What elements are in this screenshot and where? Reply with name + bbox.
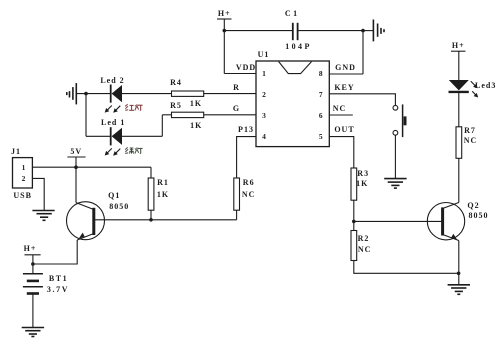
wire Q1 emitter down and left to H+ <box>33 240 77 264</box>
wire R1 top stub <box>150 167 152 178</box>
wire pin 1 VDD stub <box>224 73 256 75</box>
wire 5V rail <box>32 166 151 168</box>
wire H+ to C1 left plate <box>224 30 292 32</box>
power flag H+ Led3 <box>451 51 466 80</box>
pin label KEY <box>334 84 354 92</box>
label J1 <box>11 148 21 156</box>
label C1 <box>285 10 300 18</box>
wire battery to ground <box>32 295 34 328</box>
node junction R1 bottom <box>149 218 153 222</box>
label Q1 <box>108 192 120 200</box>
wire to R5 left <box>162 114 171 116</box>
Led2 emission arrows <box>105 106 121 113</box>
wire J1 pin 2 to ground <box>32 178 44 210</box>
LED Led3 <box>449 80 469 92</box>
wire ground rail down to Led1 <box>85 94 87 137</box>
pin label GND <box>335 64 356 72</box>
wire R7 to Q2 collector <box>458 158 460 202</box>
pin 8 number <box>319 70 323 78</box>
node junction Q2 emitter / R2 <box>457 272 461 276</box>
wire C1 right plate to ground junction <box>298 30 363 32</box>
pin 2 number <box>262 91 266 99</box>
resistor R4 <box>172 91 204 96</box>
pin 7 number <box>319 91 323 99</box>
pin 6 number <box>319 112 323 120</box>
wire ground to Led2 cathode <box>76 93 110 95</box>
pushbutton KEY <box>393 104 407 137</box>
wire R1 bottom stub <box>150 210 152 220</box>
connector J1 body <box>13 158 33 188</box>
pin label OUT <box>334 126 354 134</box>
pin 2 of J1 <box>22 175 26 183</box>
pin label VDD <box>236 64 256 72</box>
pin label NC <box>333 105 347 113</box>
node junction C1 / GND pin <box>361 29 365 33</box>
wire pin 4 P13 stub <box>237 137 256 178</box>
wire button to ground <box>394 135 396 178</box>
node junction 5V <box>74 165 78 169</box>
label Q2 <box>467 202 479 210</box>
pin 3 number <box>262 112 266 120</box>
label Led 2 <box>100 77 124 85</box>
label U1 <box>258 51 270 59</box>
pin 4 number <box>262 133 266 141</box>
wire pin 8 GND stub <box>329 73 363 75</box>
label red lamp (hong deng) <box>125 104 142 110</box>
resistor R6 <box>234 178 240 210</box>
wire junction down to pin 8 <box>362 31 364 74</box>
transistor Q2 <box>427 203 464 241</box>
value NC of R6 <box>242 191 256 199</box>
ground battery <box>22 328 44 338</box>
power flag H+ top-left <box>217 19 232 31</box>
wire R2 bottom to emitter rail <box>354 261 459 274</box>
resistor R3 <box>351 168 357 200</box>
wire Led2 anode to R4 <box>122 93 172 95</box>
wire junction to ground symbol <box>363 30 373 32</box>
value NC of R7 <box>464 137 478 145</box>
wire pin 7 KEY to button <box>329 94 395 106</box>
value 1K of R5 <box>190 122 202 130</box>
wire R3 bottom to junction <box>353 200 355 230</box>
label R4 <box>170 79 182 87</box>
label USB <box>13 192 32 200</box>
pin 5 number <box>319 133 323 141</box>
label BT1 <box>49 275 68 283</box>
label R6 <box>243 179 255 187</box>
label Led3 <box>475 82 496 90</box>
node junction battery H+ <box>31 262 35 266</box>
LED Led1 <box>111 127 122 145</box>
ground J1 <box>32 211 54 222</box>
wire VDD vertical from H+ to pin 1 <box>223 31 225 74</box>
resistor R1 <box>148 178 154 210</box>
ground (rotated, top right) <box>373 20 384 42</box>
label R3 <box>357 170 369 178</box>
power flag H+ battery <box>25 255 41 264</box>
label R1 <box>157 179 169 187</box>
Led3 emission arrows <box>471 81 478 97</box>
label R2 <box>358 235 370 243</box>
wire R6 bottom to base rail <box>236 210 238 220</box>
value 8050 of Q1 <box>109 203 129 211</box>
wire base rail Q1/R1/R6 <box>94 219 237 221</box>
wire R5 to pin 3 G <box>204 114 256 116</box>
label Led 1 <box>101 119 125 127</box>
transistor Q1 <box>67 202 105 240</box>
value 1K of R1 <box>157 191 169 199</box>
value 8050 of Q2 <box>469 212 489 220</box>
label H+ top-left <box>218 10 231 18</box>
value NC of R2 <box>358 246 372 254</box>
capacitor C1 <box>293 23 298 40</box>
value 1K of R3 <box>356 180 368 188</box>
value 104P <box>285 43 312 51</box>
pin 1 of J1 <box>22 164 26 172</box>
label R7 <box>464 127 476 135</box>
wire up to R5 level <box>161 115 163 137</box>
wire junction to ground <box>458 273 460 284</box>
net label R <box>233 84 240 92</box>
wire pin 5 OUT to R3 <box>329 137 354 168</box>
label green lamp (lv deng) <box>125 147 142 153</box>
Led1 emission arrows <box>105 148 121 155</box>
IC U1 body <box>256 61 329 147</box>
ground Q2 <box>448 285 470 295</box>
value 1K of R4 <box>190 100 202 108</box>
resistor R2 <box>351 231 357 261</box>
value 3.7V <box>47 286 69 294</box>
battery BT1 <box>23 274 43 294</box>
net label P13 <box>238 126 254 134</box>
label H+ Led3 <box>452 42 465 50</box>
ground button <box>384 179 406 189</box>
wire base of Q2 <box>354 220 443 222</box>
wire 5V junction down to Q1 collector <box>75 167 77 202</box>
wire Led1 anode right <box>122 135 162 137</box>
net label G <box>233 105 240 113</box>
wire pin 6 NC stub <box>329 114 353 116</box>
wire R4 to pin 2 R <box>204 93 256 95</box>
wire to Led1 cathode <box>86 135 111 137</box>
wire Led3 to R7 <box>458 93 460 127</box>
label H+ battery <box>24 245 37 253</box>
node junction H+ / C1 <box>223 29 227 33</box>
resistor R7 <box>456 127 462 159</box>
pin 1 number <box>262 70 266 78</box>
LED Led2 <box>111 85 122 103</box>
resistor R5 <box>172 112 204 117</box>
wire junction to battery top <box>32 264 34 274</box>
power flag 5V <box>67 157 85 167</box>
label R5 <box>170 102 182 110</box>
wire Q2 emitter to ground junction <box>458 241 460 274</box>
node junction LED ground rail <box>84 92 88 96</box>
node junction R3/R2/Q2 base <box>352 220 356 224</box>
label 5V <box>70 148 82 156</box>
ground (rotated, left of Led2) <box>66 83 76 104</box>
